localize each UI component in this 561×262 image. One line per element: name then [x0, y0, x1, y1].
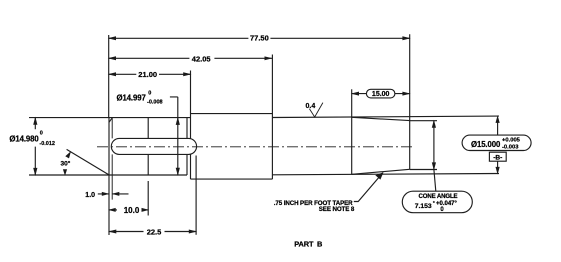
shaft section A top edge with left extension line: [29, 117, 191, 119]
22.5 right extension from keyway end: [195, 156, 197, 235]
surface finish mark: [309, 103, 323, 117]
arrow 22.5 left: [108, 230, 116, 234]
shaft section A left edge: [108, 118, 110, 175]
svg-text:22.5: 22.5: [147, 227, 162, 236]
arrow 21.00 left: [108, 72, 116, 76]
svg-text:B: B: [317, 240, 322, 249]
svg-text:77.50: 77.50: [250, 34, 269, 43]
taper big-end bottom extension: [410, 169, 437, 171]
svg-text:SEE NOTE 8: SEE NOTE 8: [319, 206, 355, 213]
svg-text:°: °: [433, 201, 435, 207]
left extension line column below shaft: [108, 175, 110, 235]
svg-text:+0.047°: +0.047°: [436, 201, 458, 207]
arrow 42.05 left: [108, 56, 116, 60]
taper big-end top extension: [410, 120, 437, 122]
section C bottom edge and gauge line extension: [272, 174, 499, 175]
svg-text:-0.008: -0.008: [147, 99, 163, 105]
dimension 21.00 line: [109, 73, 191, 75]
arrow dia14.980 up: [33, 117, 37, 125]
arrow 42.05 right: [265, 56, 273, 60]
arrow dia15.000 down: [432, 162, 436, 170]
taper top edge: [352, 117, 410, 120]
svg-text:42.05: 42.05: [192, 54, 211, 63]
taper bottom edge: [352, 169, 410, 174]
arrow 30deg down: [63, 169, 67, 176]
taper note leader: [354, 173, 383, 202]
shaft section A bottom edge with left extension line: [29, 174, 187, 176]
left extension line column above shaft: [108, 35, 110, 118]
svg-text:21.00: 21.00: [138, 70, 157, 79]
keyway slot stadium: [111, 138, 196, 154]
cone angle leader from dimension line: [434, 170, 436, 192]
shaft section A top-left chamfer: [109, 118, 112, 123]
shoulder chamfer line: [186, 118, 188, 175]
section B right edge with 42.05 extension above: [271, 55, 273, 180]
section B top edge: [191, 113, 273, 115]
taper junction line with 15.00 extension above: [351, 89, 353, 174]
10.0 right extension below shaft: [147, 181, 149, 216]
dimension 42.05 line: [109, 57, 273, 59]
cone angle stadium frame: [402, 191, 472, 213]
svg-text:0: 0: [148, 91, 151, 97]
arrow 15.00 left: [351, 92, 359, 96]
datum B leader: [497, 161, 499, 168]
svg-text:30°: 30°: [61, 159, 71, 167]
dia 15.000 label leader: [497, 122, 499, 136]
section B bottom edge: [191, 178, 273, 180]
1.0 dimension line: [98, 193, 129, 195]
dia 15.000 oval frame: [462, 135, 531, 150]
chamfer edge line at 1.0: [111, 118, 113, 200]
svg-text:-0.012: -0.012: [39, 141, 55, 147]
arrow datum B tick: [496, 167, 500, 175]
svg-text:Ø15.000: Ø15.000: [471, 140, 501, 149]
svg-text:7.153: 7.153: [415, 203, 432, 210]
arrow 15.00 right: [402, 92, 410, 96]
svg-text:PART: PART: [294, 240, 314, 249]
dia 15.000 dimension line at taper end: [433, 121, 435, 170]
dimension 15.00 line: [352, 93, 410, 95]
arrow 10.0 right: [142, 208, 150, 212]
arrow taper note: [375, 172, 383, 179]
15.00 oval frame: [366, 89, 395, 98]
arrow 77.50 right: [402, 36, 410, 40]
svg-text:Ø14.980: Ø14.980: [9, 135, 39, 144]
svg-text:15.00: 15.00: [372, 91, 390, 98]
arrow dia14.997 down: [176, 168, 180, 176]
svg-text:10.0: 10.0: [124, 206, 140, 215]
arrow 10.0 left: [108, 208, 116, 212]
arrow 77.50 left: [108, 36, 116, 40]
centerline: [97, 146, 414, 148]
section B left shoulder edge with 21.00 extension above: [190, 71, 192, 180]
arrow dia14.980 down: [33, 168, 37, 176]
30 degree construction line: [67, 149, 110, 175]
22.5 dimension line: [109, 231, 196, 233]
svg-text:Ø14.997: Ø14.997: [117, 94, 146, 103]
section C top edge and gauge line extension: [272, 116, 499, 117]
svg-text:0: 0: [40, 131, 43, 137]
dia 14.997 leader and dimension line: [170, 97, 178, 175]
10.0 dimension line: [109, 209, 148, 211]
arrow 21.00 right: [183, 72, 191, 76]
arrow 1.0 right: [112, 192, 120, 196]
dia 14.980 dimension line broken by text: [34, 118, 36, 175]
arrow dia14.997 up: [176, 117, 180, 125]
svg-text:CONE ANGLE: CONE ANGLE: [419, 193, 458, 200]
keyway end line at 10.0: [147, 118, 149, 175]
arrow gauge top: [496, 115, 500, 123]
arrow 30deg to diagonal: [65, 151, 71, 158]
arrow dia15.000 up: [432, 120, 436, 128]
arrowheads: [33, 36, 500, 233]
arrow 1.0 left: [102, 192, 110, 196]
svg-text:+0.005: +0.005: [502, 137, 521, 143]
svg-text:-0.003: -0.003: [502, 144, 519, 150]
datum B box: [489, 152, 506, 161]
svg-text:-B-: -B-: [493, 155, 502, 162]
arrow 22.5 right: [189, 230, 197, 234]
svg-text:1.0: 1.0: [85, 192, 95, 199]
svg-text:0.4: 0.4: [306, 103, 316, 110]
taper end edge with 77.50 extension above: [409, 34, 411, 169]
dimension 77.50 line: [109, 37, 410, 39]
